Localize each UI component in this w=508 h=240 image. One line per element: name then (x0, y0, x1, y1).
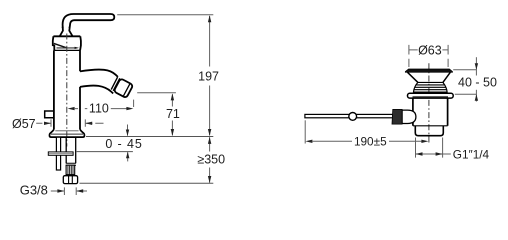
svg-text:40 - 50: 40 - 50 (458, 75, 497, 89)
supply hose upper (66, 137, 76, 163)
drain centerline (428, 63, 430, 143)
dimension 110 (68, 107, 75, 110)
cup taper (408, 72, 451, 82)
spout (80, 70, 118, 94)
lever joint ticks (62, 26, 71, 28)
mounting plate (48, 152, 73, 155)
dimension 71 (137, 92, 176, 94)
svg-text:G3/8: G3/8 (20, 182, 48, 197)
pivot housing (402, 110, 416, 123)
spout/sprayer connector ring (111, 77, 120, 91)
extension line: hose end / bottom (80, 182, 214, 184)
aerator end line (123, 83, 130, 96)
svg-text:G1″1/4: G1″1/4 (453, 148, 490, 162)
lever travel indicator (54, 43, 67, 48)
drain cup rim (405, 69, 452, 72)
dimension 190&#177;5 (304, 120, 306, 143)
centerline (body axis) (66, 34, 68, 147)
pivot nut (392, 109, 402, 124)
dimension &#216;63 (409, 45, 448, 67)
left tab (45, 111, 54, 118)
dimension 0 - 45 (127, 125, 129, 136)
drain tube (413, 98, 448, 126)
svg-text:≥350: ≥350 (197, 153, 225, 167)
dimension 197 (209, 16, 211, 135)
svg-text:71: 71 (166, 107, 180, 121)
hose nut G3/8 (63, 176, 77, 184)
svg-text:Ø57: Ø57 (12, 117, 36, 131)
svg-text:197: 197 (198, 69, 219, 83)
base flange (50, 130, 85, 138)
extension line: countertop (86, 136, 213, 138)
lever handle (60, 14, 114, 36)
drain bottom nut (415, 126, 443, 136)
mounting stud (56, 137, 60, 170)
drain flange (408, 93, 454, 98)
extension tick below sprayer (133, 100, 135, 107)
sprayer head (114, 78, 134, 98)
hose braid (66, 165, 75, 175)
svg-text:190±5: 190±5 (354, 135, 387, 149)
svg-text:0 - 45: 0 - 45 (105, 137, 142, 151)
pull rod (305, 114, 393, 117)
cup rings (414, 82, 448, 93)
svg-text:110: 110 (89, 102, 109, 116)
cap (body top) (53, 36, 81, 50)
dimension &#8805;350 (209, 137, 211, 182)
dimension 40 - 50 (453, 69, 476, 71)
rod ball (349, 113, 357, 121)
svg-text:Ø63: Ø63 (418, 44, 442, 58)
hose collar (66, 163, 76, 165)
extension line: lever top (117, 14, 213, 16)
body (54, 50, 80, 129)
dimension G1"1/4 (416, 138, 443, 158)
